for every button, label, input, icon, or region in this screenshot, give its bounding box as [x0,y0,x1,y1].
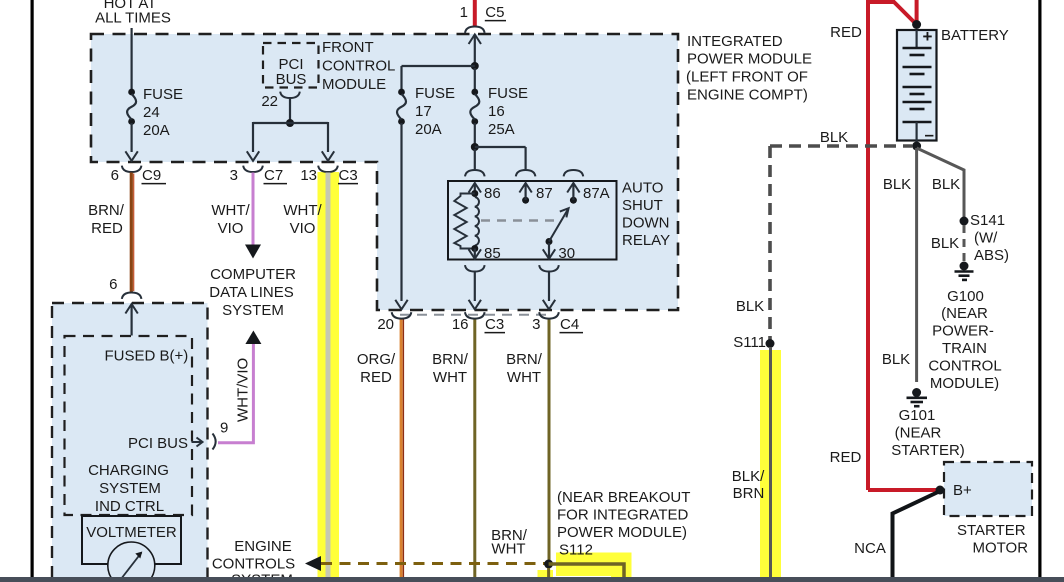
label VOLTMETER [86,524,177,541]
label BATTERY [941,27,1009,44]
connector cup pin 22 [280,92,300,98]
svg-text:POWER-: POWER- [932,323,994,340]
wire dashed to S112 [321,562,545,565]
charging system inner dashed box [65,336,193,515]
wire C5 into module [469,35,481,67]
svg-text:6: 6 [111,167,119,184]
svg-text:C3: C3 [339,167,358,184]
svg-text:FRONT: FRONT [322,39,374,56]
wire to fuse 17 [402,66,475,90]
svg-text:FUSE: FUSE [143,86,183,103]
svg-text:CONTROL: CONTROL [928,358,1001,375]
svg-text:BUS: BUS [276,71,307,88]
label BRN/WHT (pin 3) [506,351,543,386]
label (NEAR BREAKOUT FOR INTEGRATED POWER MODULE) S112 [557,489,690,559]
label 13 / C3 [300,167,358,184]
label 22 [261,93,278,110]
svg-text:–: – [925,125,934,144]
starter motor dashed box [944,462,1032,516]
svg-text:WHT/: WHT/ [283,202,322,219]
wire WHT (highlighted) below C3 [326,173,331,578]
svg-text:86: 86 [484,185,501,202]
svg-text:S141: S141 [970,212,1005,229]
relay pin labels [484,185,610,262]
svg-text:3: 3 [532,316,540,333]
svg-text:CHARGING: CHARGING [88,462,169,479]
auto shut down relay box [448,181,617,260]
svg-text:25A: 25A [488,121,515,138]
label 9 [220,420,228,437]
label G100 (NEAR POWER-TRAIN CONTROL MODULE) [928,288,1001,392]
connector cup pin 13 C3 [318,166,338,172]
label BLK (S141 wire) [932,176,960,193]
svg-text:SYSTEM: SYSTEM [99,480,161,497]
fuse F24 [127,89,136,125]
svg-text:MODULE): MODULE) [930,375,999,392]
svg-text:SYSTEM: SYSTEM [222,302,284,319]
svg-text:85: 85 [484,245,501,262]
wire WHT/VIO from C7 [252,173,255,246]
relay pin 85 stub [469,245,481,259]
svg-text:20A: 20A [143,122,170,139]
svg-text:1: 1 [460,4,468,21]
svg-text:BLK: BLK [931,235,959,252]
svg-text:13: 13 [300,167,317,184]
svg-text:IND CTRL: IND CTRL [95,498,164,515]
connector cup below relay pin 30 [539,265,559,271]
svg-text:BRN/: BRN/ [88,202,125,219]
svg-text:16: 16 [452,316,469,333]
wire BLK battery to S141 [917,148,964,218]
label BLK/BRN [732,468,765,502]
label INTEGRATED POWER MODULE [686,33,812,104]
svg-text:WHT: WHT [433,369,467,386]
svg-text:RED: RED [360,369,392,386]
svg-text:PCI BUS: PCI BUS [128,435,188,452]
wire pin 22 to junction [289,99,291,124]
svg-text:22: 22 [261,93,278,110]
svg-text:BRN/: BRN/ [506,351,543,368]
svg-text:20: 20 [377,316,394,333]
wire hot feed to fuse 24 [131,28,133,90]
wire fuse16 down to relay split [474,123,476,145]
svg-text:MOTOR: MOTOR [973,540,1029,557]
svg-text:BLK: BLK [882,351,910,368]
svg-text:STARTER): STARTER) [891,442,965,459]
label AUTO SHUT DOWN RELAY [622,180,670,250]
svg-text:VIO: VIO [290,220,316,237]
svg-text:WHT: WHT [507,369,541,386]
wire BRN/RED [131,173,133,293]
fuse 24 label [143,86,183,139]
svg-text:WHT/: WHT/ [211,202,250,219]
label BRN/WHT near S112 [491,527,528,558]
PCI BUS dashed box [263,43,319,88]
svg-text:9: 9 [220,420,228,437]
yellow highlight band right of S112 [556,553,632,582]
wire relay 85 to pin 16 [469,272,481,309]
connector cup pin 20 [392,312,412,318]
svg-text:FOR INTEGRATED: FOR INTEGRATED [557,507,689,524]
svg-text:WHT/VIO: WHT/VIO [235,358,252,422]
voltmeter box [82,516,181,564]
svg-text:STARTER: STARTER [957,522,1026,539]
svg-text:S112: S112 [559,542,593,559]
fuse F17 [397,89,406,125]
connector cup pin 3 C7 [243,166,263,172]
svg-text:ORG/: ORG/ [357,351,396,368]
svg-text:C9: C9 [142,167,161,184]
svg-text:17: 17 [415,103,432,120]
svg-text:FUSE: FUSE [415,85,455,102]
wire branch to relay 87 [475,147,526,169]
wire junction to fuse 16 [474,68,476,90]
label 6 / C9 [111,167,166,184]
label HOT AT ALL TIMES [95,0,171,27]
junction node C5 split [471,62,479,70]
connector cup charging system pin 6 [122,293,142,299]
svg-text:G101: G101 [899,407,936,424]
label BLK (g101 wire) [882,351,910,368]
yellow highlight band on WHT/VIO wire C3 [318,172,340,582]
svg-text:CONTROL: CONTROL [322,58,395,75]
svg-text:16: 16 [488,103,505,120]
label BLK (above S111) [736,298,764,315]
connector cup pin 3 C4 [539,312,559,318]
svg-text:BLK/: BLK/ [732,468,765,485]
svg-text:C4: C4 [560,316,579,333]
connector cup pin 16 C3 [465,312,485,318]
junction node battery negative [912,142,921,151]
connector 9 half-circle [213,434,216,450]
svg-text:BLK: BLK [820,129,848,146]
wire junction to C7 branch [247,122,290,161]
svg-text:VOLTMETER: VOLTMETER [86,524,177,541]
svg-text:POWER MODULE): POWER MODULE) [557,524,687,541]
label 6 (charging input) [109,276,117,293]
svg-text:RED: RED [91,220,123,237]
wire fuse17 to pin 20 [395,123,407,309]
relay pin 86 stub [469,183,481,197]
svg-text:G100: G100 [947,288,984,305]
label BRN/RED [88,202,125,237]
wire RED top links [866,0,917,24]
svg-text:CONTROLS: CONTROLS [212,556,295,573]
svg-text:ABS): ABS) [974,247,1009,264]
connector cup below relay pin 85 [465,265,485,271]
label B+ [953,482,972,499]
fuse 17 label [415,85,455,138]
node B+ [936,486,945,495]
right page border [1038,0,1041,578]
wire BLK battery to G101 [915,148,918,382]
label RED (top) [830,24,862,41]
svg-text:ALL TIMES: ALL TIMES [95,10,171,27]
svg-text:3: 3 [230,167,238,184]
svg-text:MODULE: MODULE [322,76,386,93]
svg-text:RED: RED [830,449,862,466]
svg-text:SHUT: SHUT [622,197,663,214]
label FRONT CONTROL MODULE [322,39,395,93]
svg-text:(NEAR: (NEAR [895,425,942,442]
svg-text:BRN/: BRN/ [432,351,469,368]
svg-text:POWER MODULE: POWER MODULE [687,51,812,68]
wire BLK dashed S141 to G100 [963,225,966,261]
wire stub below S112 [547,568,550,577]
wire BRN/WHT pin 3 to S112 [548,319,551,562]
label 3 / C7 [230,167,287,184]
relay switch arm pin 30 [543,208,569,259]
wire BRN/WHT pin 16 [473,319,476,577]
svg-text:+: + [923,27,933,46]
label 1 / C5 [460,4,506,21]
label CHARGING SYSTEM IND CTRL [88,462,169,515]
svg-text:20A: 20A [415,121,442,138]
label PCI BUS [276,56,307,88]
relay coil [475,197,479,245]
svg-text:C7: C7 [264,167,283,184]
svg-text:30: 30 [558,245,575,262]
svg-text:NCA: NCA [854,540,886,557]
svg-text:VIO: VIO [218,220,244,237]
connector cup relay pin 87A [564,170,584,176]
svg-text:87A: 87A [583,185,610,202]
fuse F16 [470,89,479,125]
svg-text:B+: B+ [953,482,972,499]
junction node pci bus split [286,119,294,127]
svg-text:BLK: BLK [883,176,911,193]
wire RED from top to 1 C5 [473,0,477,26]
svg-text:FUSE: FUSE [488,85,528,102]
yellow highlight patch below S112 [538,570,554,582]
wire fuse 24 to pin 6 C9 [125,123,137,161]
svg-text:87: 87 [536,185,553,202]
svg-text:FUSED B(+): FUSED B(+) [105,348,189,365]
svg-text:COMPUTER: COMPUTER [210,266,296,283]
svg-text:BRN: BRN [733,485,765,502]
connector cup relay pin 87 [516,170,536,176]
svg-text:WHT: WHT [491,541,525,558]
label G101 (NEAR STARTER) [891,407,965,459]
wire BLK/BRN below S111 (highlighted) [769,347,772,577]
svg-text:BLK: BLK [932,176,960,193]
wire RED to starter B+ [868,488,938,492]
voltmeter gauge circle [108,542,155,582]
wire BLK dashed horizontal [770,144,912,148]
arrow up to computer data lines [245,331,261,345]
label BLK (dashed horizontal) [820,129,848,146]
yellow highlight band on BLK/BRN wire below S111 [760,350,781,582]
battery B1 [897,27,937,146]
svg-text:RED: RED [830,24,862,41]
front control module + integrated power module block [91,34,678,310]
wire ORG/RED pin 20 [401,319,403,577]
label COMPUTER DATA LINES SYSTEM [209,266,296,319]
wire WHT/VIO pci bus [218,344,253,443]
label BLK (to G100) [931,235,959,252]
svg-text:BLK: BLK [736,298,764,315]
wire junction to C3 branch [290,122,334,161]
bottom page bar [0,577,1064,582]
wire to relay 86 [474,149,476,169]
svg-text:RELAY: RELAY [622,232,670,249]
fuse 16 label [488,85,528,138]
svg-text:(W/: (W/ [974,230,998,247]
wire from S112 right and down (highlighted) [549,564,624,578]
splice S112 [544,560,553,569]
svg-text:INTEGRATED: INTEGRATED [687,33,783,50]
wire RED vertical bus [866,2,870,490]
svg-text:C5: C5 [485,4,504,21]
junction node relay feed [471,143,479,151]
label WHT/VIO (C7 wire) [211,202,250,237]
relay pin 87A stub [567,183,579,204]
label BLK (battery down wire) [883,176,911,193]
label BRN/WHT (pin 16) [432,351,469,386]
label WHT/VIO (C3 wire) [283,202,322,237]
connector cup pin 6 C9 [122,166,142,172]
relay link dashed [481,219,556,221]
label S141 (W/ ABS) [970,212,1009,264]
svg-text:(LEFT FRONT OF: (LEFT FRONT OF [686,69,808,86]
svg-text:TRAIN: TRAIN [942,340,987,357]
label FUSED B(+) [105,348,189,365]
svg-text:AUTO: AUTO [622,180,663,197]
wire NCA [893,492,939,577]
label ENGINE CONTROLS SYSTEM [212,538,295,582]
relay pin 87 stub [519,183,531,204]
svg-text:(NEAR: (NEAR [941,305,988,322]
label WHT/VIO rotated [235,358,252,422]
svg-text:(NEAR BREAKOUT: (NEAR BREAKOUT [557,489,690,506]
wire into charging box [125,304,137,336]
arrow to engine controls [305,556,321,571]
charging system module box [52,303,208,582]
wire BLK dashed vertical to S111 [768,146,772,340]
label RED (lower) [830,449,862,466]
svg-text:BATTERY: BATTERY [941,27,1009,44]
ground G100 [955,262,974,280]
svg-text:ENGINE COMPT): ENGINE COMPT) [687,87,808,104]
wire relay 30 to pin 3 [543,272,555,309]
splice S111 [766,339,775,348]
svg-text:24: 24 [143,104,160,121]
junction node battery positive [912,20,921,29]
connector cup pin 1 C5 (top) [465,27,485,33]
label PCI BUS with arrow [128,435,203,452]
relay resistor [454,194,475,249]
svg-text:6: 6 [109,276,117,293]
connector line C3/C4 gray dashed [400,314,553,316]
label ORG/RED [357,351,396,386]
splice S141 [960,217,969,226]
svg-text:DATA LINES: DATA LINES [209,284,293,301]
arrow to computer data lines [245,245,261,259]
labels 20 / 16 C3 / 3 C4 [377,316,583,333]
svg-text:C3: C3 [485,316,504,333]
label STARTER MOTOR [957,522,1028,557]
left page border [31,0,34,578]
svg-text:S111: S111 [733,334,766,351]
ground G101 [907,388,928,406]
svg-text:DOWN: DOWN [622,215,670,232]
label NCA [854,540,886,557]
svg-text:ENGINE: ENGINE [234,538,292,555]
label S111 [733,334,766,351]
connector cup relay pin 86 [465,170,485,176]
